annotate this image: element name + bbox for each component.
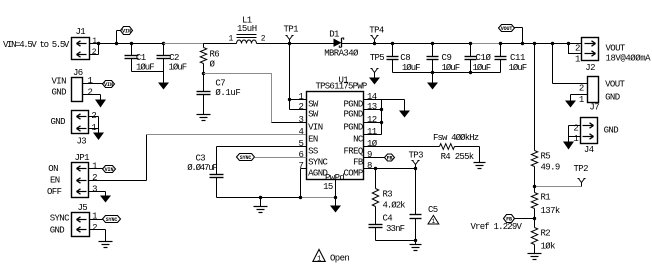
U1 pin7 AGND wire — [301, 169, 307, 198]
capacitor C3 — [187, 147, 223, 198]
svg-text:1Ø: 1Ø — [367, 139, 378, 149]
op IC U1 TPS61175PWP body — [307, 76, 367, 183]
svg-text:2: 2 — [88, 87, 93, 97]
svg-text:5: 5 — [298, 139, 303, 149]
svg-text:C4: C4 — [383, 214, 393, 224]
svg-text:TP3: TP3 — [409, 150, 424, 160]
U1 left pin names — [308, 99, 328, 178]
svg-text:PGND: PGND — [343, 99, 362, 109]
resistor R6 — [200, 44, 219, 74]
label J7 VOUT GND — [605, 79, 625, 102]
resistor R2 — [531, 219, 555, 254]
svg-text:AGND: AGND — [308, 168, 327, 178]
svg-text:VIN: VIN — [122, 28, 131, 34]
svg-text:4.Ø2k: 4.Ø2k — [383, 201, 406, 211]
junction TP4 — [373, 42, 376, 45]
svg-text:VIN=4.5V to 5.5V: VIN=4.5V to 5.5V — [3, 40, 70, 50]
svg-text:1: 1 — [317, 255, 321, 263]
svg-text:SW: SW — [308, 109, 319, 119]
svg-text:FREQ: FREQ — [343, 146, 362, 156]
ground arrow PGND — [382, 100, 411, 118]
junction COMP R3 — [374, 167, 377, 170]
test point TP5 grounded — [369, 53, 384, 84]
svg-text:GND: GND — [51, 117, 66, 127]
junction COMP TP3 — [414, 167, 417, 170]
svg-text:6: 6 — [298, 150, 303, 160]
wire VIN node to U1 pin3 — [204, 74, 307, 123]
inductor L1 — [229, 16, 266, 44]
wire VIN rail J1 to L1 — [90, 43, 237, 45]
svg-text:49.9: 49.9 — [541, 162, 560, 172]
svg-text:C11: C11 — [510, 53, 525, 63]
svg-text:R6: R6 — [210, 50, 220, 60]
svg-text:Vref 1.229V: Vref 1.229V — [471, 222, 523, 232]
svg-text:TP4: TP4 — [369, 26, 384, 36]
junction AGND pin7 — [299, 196, 302, 199]
svg-text:GND: GND — [604, 125, 619, 135]
junction C11 top — [499, 42, 502, 45]
svg-text:1: 1 — [91, 123, 96, 133]
junction AGND pin15 — [334, 196, 337, 199]
resistor R4 and Fsw — [364, 133, 480, 163]
ground R4 — [474, 162, 486, 164]
svg-text:11: 11 — [367, 127, 377, 137]
power flag VIN top — [117, 27, 133, 44]
svg-text:R5: R5 — [541, 151, 551, 161]
net label VIN at JP1 — [103, 166, 116, 173]
capacitor C4 — [369, 214, 416, 241]
svg-text:OFF: OFF — [47, 187, 62, 197]
junction C9 bottom — [431, 71, 434, 74]
svg-text:13: 13 — [367, 102, 377, 112]
svg-text:SYNC: SYNC — [308, 157, 328, 167]
svg-text:9: 9 — [367, 150, 372, 160]
wire rail L1 to D1 — [257, 43, 334, 45]
svg-text:D1: D1 — [329, 29, 339, 39]
svg-text:C8: C8 — [400, 53, 410, 63]
svg-text:1ØuF: 1ØuF — [473, 63, 491, 73]
note triangle 1 Open — [313, 249, 350, 263]
U1 pin15 stub — [323, 180, 335, 198]
svg-text:3: 3 — [298, 115, 303, 125]
connector J3 — [51, 111, 105, 147]
svg-text:GND: GND — [50, 225, 65, 235]
svg-text:COMP: COMP — [343, 168, 362, 178]
svg-text:1ØuF: 1ØuF — [169, 63, 187, 73]
svg-text:Open: Open — [330, 253, 349, 263]
junction J7 feed — [551, 42, 554, 45]
junction TP1 — [288, 42, 291, 45]
svg-text:15: 15 — [323, 182, 333, 192]
junction VIN flag — [115, 42, 118, 45]
svg-text:GND: GND — [52, 87, 67, 97]
svg-text:14: 14 — [367, 92, 377, 102]
capacitor C9 — [427, 44, 460, 73]
wire SW node TP1 to pins 1-2 — [289, 44, 291, 110]
svg-text:SYNC: SYNC — [240, 155, 252, 161]
capacitor C2 — [157, 44, 187, 73]
svg-text:3: 3 — [92, 185, 97, 195]
svg-text:15uH: 15uH — [237, 24, 257, 34]
svg-text:C9: C9 — [442, 53, 452, 63]
svg-text:SYNC: SYNC — [106, 217, 118, 223]
junction C10 bottom — [469, 71, 472, 74]
svg-text:1: 1 — [575, 55, 580, 65]
svg-text:VIN: VIN — [52, 77, 67, 87]
svg-text:J6: J6 — [73, 68, 83, 78]
ground J5 — [99, 241, 113, 243]
svg-text:2: 2 — [91, 111, 96, 121]
ground arrow below C9 — [427, 73, 438, 90]
svg-text:VOUT: VOUT — [501, 26, 513, 32]
junction C4 C5 ground — [414, 239, 417, 242]
junction C2 top — [162, 42, 165, 45]
svg-text:VOUT: VOUT — [606, 44, 626, 54]
U1 right pin names — [343, 99, 363, 178]
svg-text:1: 1 — [92, 212, 97, 222]
resistor R5 — [531, 44, 560, 187]
svg-text:Ø.Ø47uF: Ø.Ø47uF — [187, 163, 217, 173]
svg-text:R2: R2 — [541, 228, 551, 238]
net label SYNC at U1 — [237, 154, 307, 161]
wire rail C2 to R6 — [164, 43, 204, 45]
svg-text:PGND: PGND — [343, 122, 362, 132]
svg-text:2: 2 — [573, 124, 578, 134]
svg-text:1ØuF: 1ØuF — [402, 63, 420, 73]
net label SYNC at J5 — [103, 216, 121, 223]
svg-text:J2: J2 — [585, 63, 595, 73]
label VOUT output — [606, 44, 652, 64]
junction R5 feed — [533, 42, 536, 45]
svg-text:VIN: VIN — [104, 82, 113, 88]
svg-text:EN: EN — [308, 134, 318, 144]
svg-text:1: 1 — [298, 92, 303, 102]
svg-text:Fsw 4ØØkHz: Fsw 4ØØkHz — [433, 133, 479, 143]
U1 left pin numbers 1-7 — [298, 92, 303, 171]
test point TP1 — [284, 25, 299, 44]
connector JP1 — [47, 153, 111, 202]
junction C10 top — [469, 42, 472, 45]
svg-text:NC: NC — [353, 134, 364, 144]
svg-text:VIN: VIN — [308, 122, 323, 132]
wire COMP — [364, 168, 416, 170]
svg-text:2: 2 — [298, 102, 303, 112]
capacitor C10 — [465, 44, 492, 73]
junction VOUT flag — [521, 42, 524, 45]
capacitor C8 — [387, 44, 421, 73]
diode D1 MBRA340 — [324, 29, 359, 58]
svg-text:R3: R3 — [383, 189, 393, 199]
svg-text:R4 255k: R4 255k — [441, 152, 474, 162]
connector J1 — [72, 27, 99, 59]
svg-text:2: 2 — [575, 44, 580, 54]
U1 right pin numbers 14-8 — [367, 92, 378, 171]
svg-text:4: 4 — [298, 127, 303, 137]
svg-text:J4: J4 — [584, 145, 594, 155]
svg-text:12: 12 — [367, 115, 377, 125]
svg-text:SYNC: SYNC — [50, 214, 70, 224]
svg-text:FB: FB — [387, 155, 393, 161]
svg-text:1: 1 — [573, 134, 578, 144]
connector J2 — [569, 38, 599, 73]
svg-text:Ø.1uF: Ø.1uF — [215, 88, 240, 98]
svg-text:C3: C3 — [196, 154, 206, 164]
junction R1 R2 FB — [533, 217, 536, 220]
junction C9 top — [431, 42, 434, 45]
ground arrow below C2 — [158, 72, 169, 90]
ground arrow below pin15 — [330, 198, 341, 213]
svg-text:2: 2 — [579, 84, 584, 94]
resistor R3 — [372, 169, 405, 225]
junction AGND ground — [259, 196, 262, 199]
test point TP4 — [369, 26, 384, 44]
connector J4 — [563, 118, 598, 156]
svg-text:2: 2 — [92, 173, 97, 183]
capacitor C1 — [125, 44, 155, 73]
connector J7 — [553, 44, 600, 113]
ground AGND bar — [254, 198, 268, 213]
svg-text:C1Ø: C1Ø — [476, 53, 492, 63]
svg-text:PGND: PGND — [343, 109, 362, 119]
junction C1 top — [130, 42, 133, 45]
junction R5 R1 TP2 — [533, 185, 536, 188]
svg-text:137k: 137k — [541, 206, 560, 216]
svg-text:8: 8 — [367, 161, 372, 171]
svg-text:VIN: VIN — [105, 167, 114, 173]
svg-text:1: 1 — [579, 95, 584, 105]
net label VOUT — [499, 25, 523, 44]
junction J1 pin2 — [97, 42, 100, 45]
svg-text:EN: EN — [50, 176, 60, 186]
note triangle 1 at C5 — [428, 215, 439, 225]
svg-text:1: 1 — [88, 76, 93, 86]
test point TP2 — [535, 164, 589, 187]
svg-text:1: 1 — [92, 161, 97, 171]
ground R2 — [528, 253, 542, 255]
ground C7 — [197, 114, 211, 116]
capacitor C11 — [495, 44, 527, 73]
svg-text:2: 2 — [92, 223, 97, 233]
net label FB at divider — [504, 215, 535, 223]
svg-text:GND: GND — [605, 93, 620, 103]
junction SW pin1 — [288, 98, 291, 101]
connector J5 — [50, 203, 106, 241]
svg-text:1: 1 — [432, 218, 436, 225]
junction PGND 13 — [380, 108, 383, 111]
resistor R1 — [531, 187, 560, 219]
capacitor C7 — [197, 74, 241, 115]
U1 pin1 pin2 stubs — [290, 100, 307, 110]
svg-text:MBRA34Ø: MBRA34Ø — [324, 49, 359, 59]
svg-text:SW: SW — [308, 99, 319, 109]
svg-text:R1: R1 — [541, 192, 551, 202]
ground COMP network — [410, 241, 422, 251]
svg-text:JP1: JP1 — [75, 153, 90, 163]
wire rail D1 to J2 — [342, 43, 582, 45]
svg-text:1ØuF: 1ØuF — [509, 63, 527, 73]
wire AGND bus — [217, 197, 336, 199]
svg-text:33nF: 33nF — [386, 224, 405, 234]
svg-text:TP2: TP2 — [574, 164, 589, 174]
capacitor C5 open — [410, 169, 438, 241]
U1 right PGND stubs 14-11 — [364, 100, 382, 135]
svg-text:ON: ON — [48, 164, 58, 174]
wire SS to C3 — [217, 146, 307, 148]
net label VIN at J6 — [103, 81, 115, 88]
svg-text:1ØuF: 1ØuF — [442, 63, 460, 73]
junction R6 bottom — [202, 72, 205, 75]
svg-text:TP5: TP5 — [370, 53, 385, 63]
wire C1-C2 ground bus — [132, 71, 164, 73]
svg-text:J5: J5 — [78, 203, 88, 213]
svg-text:J1: J1 — [76, 27, 86, 37]
svg-text:SS: SS — [308, 146, 318, 156]
test point TP3 — [409, 150, 424, 168]
connector J6 — [52, 68, 107, 107]
junction J2 jog — [567, 42, 570, 45]
svg-text:J7: J7 — [589, 102, 599, 112]
svg-text:TP1: TP1 — [284, 25, 299, 35]
svg-text:VOUT: VOUT — [605, 79, 625, 89]
junction PGND 12 — [380, 121, 383, 124]
svg-text:C5: C5 — [428, 205, 438, 215]
net label FB at U1 — [364, 154, 395, 161]
wire output cap ground bus — [393, 72, 501, 74]
wire EN JP1 to U1 pin4 — [89, 135, 307, 181]
junction C8 top — [391, 42, 394, 45]
svg-text:TPS61175PWP: TPS61175PWP — [316, 82, 367, 92]
svg-text:J3: J3 — [77, 137, 87, 147]
svg-text:18V@4ØØmA: 18V@4ØØmA — [606, 54, 652, 64]
svg-text:FB: FB — [353, 157, 364, 167]
svg-text:1Øk: 1Øk — [541, 241, 556, 251]
